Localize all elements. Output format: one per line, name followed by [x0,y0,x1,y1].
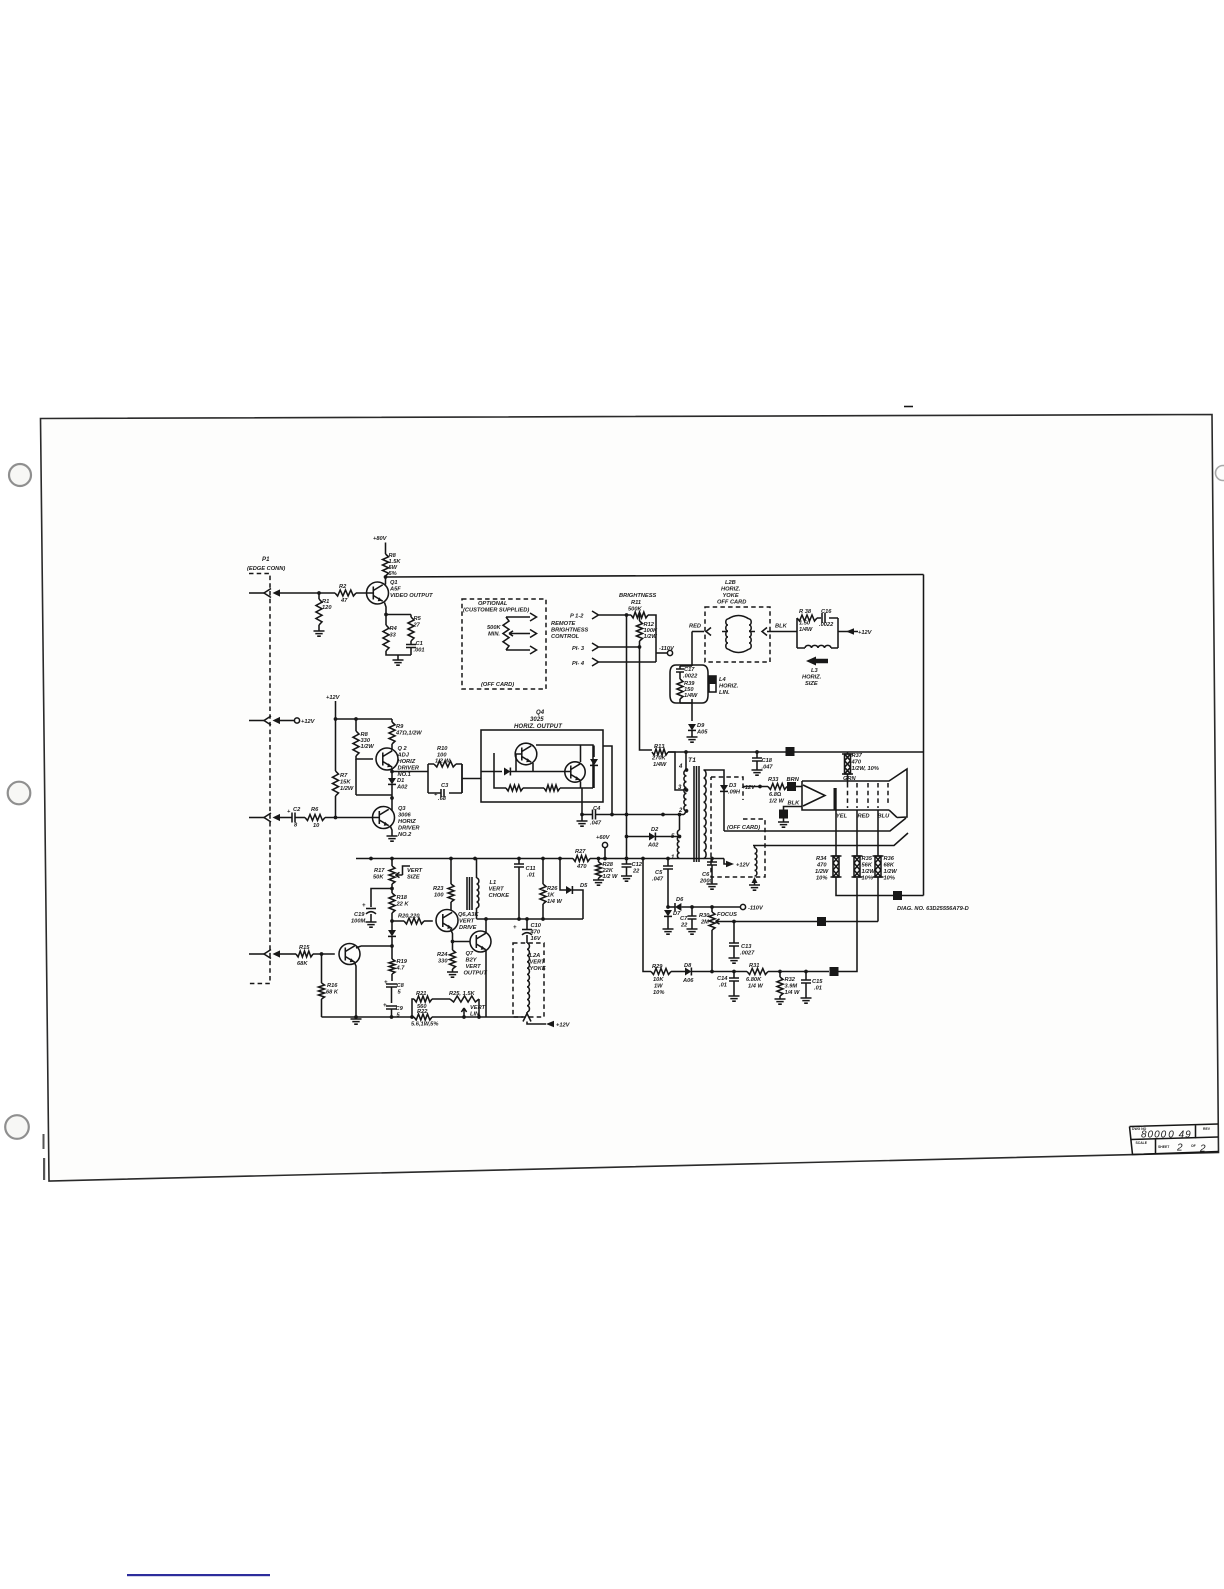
resistor R34 470 1/2W 10% [815,856,842,882]
diode Q4 input [504,768,510,776]
label C16 .0022 [819,609,834,628]
svg-text:4.7: 4.7 [396,966,406,972]
svg-text:BRIGHTNESS: BRIGHTNESS [551,628,588,634]
T1 pin 3 [678,785,688,792]
ground under R28 [593,878,604,885]
resistor R33 6.8 1/2W [768,777,787,805]
svg-text:(CUSTOMER SUPPLIED): (CUSTOMER SUPPLIED) [463,608,529,614]
svg-text:D5: D5 [580,883,588,889]
wire Q7 collector [485,919,487,934]
P1 pin 1 [249,589,280,598]
svg-text:HORIZ: HORIZ [398,759,416,765]
capacitor C13 .0027 [729,922,755,959]
diode D4 [388,921,396,946]
svg-text:1/2 W: 1/2 W [769,799,784,805]
wire top rail to horiz section [386,575,924,578]
transistor Q1 [367,582,389,604]
label YEL [836,814,848,820]
resistor R1 120 [316,593,332,631]
svg-text:R9: R9 [396,724,404,730]
svg-text:YOKE: YOKE [723,593,739,599]
terminal -110V [740,904,764,911]
svg-text:+80V: +80V [373,536,388,542]
svg-text:OF: OF [1191,1144,1196,1148]
transistor Q2 [376,748,398,770]
svg-text:500K: 500K [487,625,501,631]
label BLK at CRT [788,801,801,807]
T1 core [694,766,699,862]
svg-text:2M: 2M [700,920,709,926]
+12V supply label [326,695,341,719]
terminal -110V tap [656,646,675,656]
diode D7 [664,905,681,929]
svg-text:5%: 5% [389,571,397,577]
svg-text:+60V: +60V [596,835,611,841]
svg-text:R13: R13 [654,744,665,750]
capacitor C4 .047 [582,806,602,827]
+80V supply [373,536,388,554]
wire Q7 emitter down [485,950,487,1017]
capacitor C8 5 [384,980,405,1003]
svg-text:ADJ: ADJ [397,753,410,759]
svg-text:C18: C18 [762,758,773,764]
svg-text:.047: .047 [762,765,774,771]
svg-text:L4: L4 [719,677,726,683]
vert size wiper [396,866,423,881]
wire BLU column [877,810,879,856]
diode D1 A02 [388,778,408,791]
label REMOTE BRIGHTNESS CONTROL [551,621,588,640]
wire YEL column [835,810,837,856]
svg-text:1/2 W: 1/2 W [603,874,618,880]
capacitor C14 .01 [717,970,739,996]
ground under C7 [687,929,698,934]
svg-text:C13: C13 [741,944,752,950]
resistor R35 56K 1/2W 10% [852,856,876,882]
svg-text:DIAG. NO. 63D25556A79-D: DIAG. NO. 63D25556A79-D [897,906,969,912]
optional customer supplied dashed box [462,599,546,689]
diode D3 .09H [720,783,741,796]
svg-text:10%: 10% [862,876,873,882]
svg-text:A06: A06 [682,978,694,984]
svg-text:LIN.: LIN. [719,690,730,696]
wire vert rail junctions [369,857,645,861]
svg-text:C5: C5 [655,870,663,876]
wire rail to R29 [643,859,651,972]
svg-text:33: 33 [390,633,397,639]
svg-text:56K: 56K [862,863,873,869]
dashed off card box yoke D3 [711,777,765,877]
resistor R29 10K 1W 10% [651,964,671,996]
svg-text:VERT: VERT [470,1005,486,1011]
wire Q4 internals [511,745,595,788]
box Q4 outer [481,730,603,802]
svg-text:10K: 10K [653,977,664,983]
svg-text:100: 100 [434,893,444,899]
svg-text:R4: R4 [390,626,398,632]
svg-text:RED: RED [689,624,701,630]
wire horiz output rail right [668,751,924,753]
wire bubble internals [680,666,692,721]
resistor R13 270K 1/4W [651,744,668,768]
label GRN [843,774,857,783]
wire R4/C1 bottom to ground [386,651,411,660]
label Q7 B2Y VERT OUTPUT [464,951,488,977]
svg-text:C19: C19 [354,912,365,918]
resistor R5 27 [408,616,422,641]
label BRN [787,777,800,783]
resistor R32 3.9M 1/4W [777,970,800,999]
arrow wiper [516,630,537,638]
svg-text:Q3: Q3 [398,806,406,812]
wire BLU to focus [877,877,879,922]
P1 pin 2 [249,716,280,725]
ground under C19 [366,922,377,927]
resistor Q4 emitter 2 [544,785,560,791]
svg-text:560: 560 [417,1004,427,1010]
svg-text:100M: 100M [351,919,365,925]
label RED [858,814,870,820]
resistor R6 10 [305,807,325,829]
T1 pin 4 [678,764,688,772]
svg-text:D2: D2 [651,827,659,833]
svg-text:10: 10 [313,823,320,829]
resistor R24 330 [437,950,456,972]
svg-text:L1: L1 [490,880,497,886]
coil L2B horiz yoke [722,616,755,653]
sheet 2 of 2 handwritten [1176,1143,1207,1155]
svg-text:3006: 3006 [398,813,411,819]
svg-text:4: 4 [678,764,683,770]
wire Q6 emitter to R24/Q7 [451,929,471,950]
svg-text:R15: R15 [299,945,310,951]
label (OFF CARD) lower [481,682,514,688]
svg-text:47Ω,1/2W: 47Ω,1/2W [395,731,422,737]
diode D9 A05 [688,723,708,737]
svg-text:C14: C14 [717,976,728,982]
CRT neck outline [802,769,907,818]
potentiometer R30 2M FOCUS [699,907,737,930]
wire R12 to R13 vertical [640,647,653,750]
svg-text:C11: C11 [526,866,536,872]
wire R11 right loop [648,615,656,662]
svg-text:1/4 W: 1/4 W [748,984,763,990]
svg-text:.0022: .0022 [683,674,698,680]
T1 lower winding 5-1 [677,813,681,859]
transistor Q4a [515,743,537,765]
wire Q4 output down [580,788,584,816]
ground video stage [393,660,404,665]
wire T1 secondary top to CRT line [704,770,725,831]
svg-text:C17: C17 [684,667,695,673]
wire RED column [856,810,858,856]
svg-text:SHEET: SHEET [1158,1145,1170,1149]
svg-text:C1: C1 [416,641,423,647]
svg-text:HORIZ.: HORIZ. [721,587,741,593]
resistor R7 15K 1/2W [333,719,354,818]
svg-text:FOCUS: FOCUS [717,912,737,918]
transistor Q7 [470,931,491,952]
wire R8 to Q1 collector / node +80V rail [384,575,388,584]
svg-text:R31: R31 [749,963,759,969]
svg-text:1/4W: 1/4W [684,693,698,699]
svg-text:+12V: +12V [301,719,316,725]
svg-text:68K: 68K [297,961,308,967]
resistor R17 50K [373,859,395,885]
svg-text:R17: R17 [374,868,385,874]
svg-text:1/2W: 1/2W [815,869,829,875]
title block frame [1130,1124,1219,1155]
svg-text:47: 47 [340,598,348,604]
svg-text:.01: .01 [814,986,822,992]
svg-text:(OFF CARD): (OFF CARD) [481,682,514,688]
resistor R36 68K 1/2W 10% [873,856,898,882]
svg-text:.01: .01 [527,873,535,879]
svg-text:C6: C6 [702,872,710,878]
label R38 1.50 1/4W [799,609,813,633]
svg-text:R16: R16 [327,983,338,989]
wire +12V rail to R8/R9 [334,717,392,731]
connector BLK [762,624,797,636]
svg-text:15K: 15K [340,780,351,786]
title block label REV [1203,1127,1211,1131]
label Q3 3006 HORIZ DRIVER NO.2 [398,806,420,838]
svg-text:C15: C15 [812,979,823,985]
resistor R28 22K 1/2W [596,857,618,880]
resistor Q4 emitter 1 [506,785,544,791]
ground under Q4 [577,815,588,827]
title block label SHEET [1158,1145,1170,1149]
svg-text:27: 27 [413,623,421,629]
T1 pin 1 [671,855,675,861]
left edge small print marks [43,1134,46,1180]
rail bottom horiz [356,858,724,860]
svg-text:GRN: GRN [843,776,857,782]
junction square BRN [787,782,802,791]
resistor R21 560 [412,991,450,1017]
terminal +12V at pin2 [280,718,316,725]
wire right vertical rail [923,575,925,896]
svg-text:DRIVER: DRIVER [398,766,420,772]
svg-text:OPTIONAL: OPTIONAL [478,601,508,607]
svg-text:C4: C4 [593,806,601,812]
resistor R20 220 [390,913,433,924]
bubble outline C17 R39 [670,665,708,703]
svg-text:NO.2: NO.2 [398,832,412,838]
svg-text:+12V: +12V [736,863,751,869]
svg-text:D8: D8 [684,963,692,969]
svg-text:C16: C16 [821,609,832,615]
svg-text:.001: .001 [414,648,425,654]
svg-text:R25, 1.5K: R25, 1.5K [449,991,476,997]
resistor R8 330 1/2W [353,731,374,756]
L3 horiz size arrow [806,657,828,666]
R10 100 1/2W with C3 box [428,761,462,797]
resistor R23 100 [433,859,454,911]
capacitor C19 100M [351,889,392,925]
svg-text:5.6,1W,5%: 5.6,1W,5% [411,1022,438,1028]
svg-text:LIN.: LIN. [470,1012,481,1018]
svg-text:VIDEO OUTPUT: VIDEO OUTPUT [390,593,433,599]
svg-text:470: 470 [851,760,862,766]
wire R8 to Q2 base [356,756,373,759]
svg-text:HORIZ.: HORIZ. [719,684,739,690]
svg-text:VERT: VERT [407,868,423,874]
svg-text:1/4 W: 1/4 W [785,990,800,996]
box Q4 inner [494,745,593,788]
label (OFF CARD) yoke [727,825,760,831]
potentiometer R25 1.5K [449,991,479,1017]
svg-text:D9: D9 [697,723,705,729]
label L3 HORIZ SIZE [802,668,822,687]
svg-text:R6: R6 [311,807,319,813]
svg-text:Q7: Q7 [466,951,474,957]
wire long vertical brightness to C4 line [625,613,629,864]
punch hole left bottom [5,1115,29,1139]
registration tick top border [904,406,913,408]
ground under R32 [775,999,786,1004]
svg-text:R 38: R 38 [799,609,812,615]
svg-text:50K: 50K [373,875,384,881]
svg-text:DRIVER: DRIVER [398,826,420,832]
svg-text:A5F: A5F [389,587,401,593]
ground under C18 [752,770,763,775]
focus wiper wire [716,919,818,924]
ground under D9 [687,737,698,742]
svg-text:R7: R7 [340,773,348,779]
P1 pin 3 [249,813,280,822]
ground under Q3 [387,836,398,841]
R25 wiper vert lin [461,1005,485,1018]
terminal +60V [596,835,611,860]
ground under R1 [314,631,325,636]
svg-text:HORIZ.: HORIZ. [802,675,822,681]
svg-text:R18: R18 [397,895,408,901]
node PI-3 [572,643,640,652]
BLK return wire [784,807,803,811]
capacitor C2 8 [280,807,305,829]
wire YEL to bottom bus [836,877,924,896]
label Q2 ADJ HORIZ DRIVER NO.1 [397,746,420,778]
ground under D7 [663,929,674,934]
CRT grid dashed electrodes [848,783,889,808]
wire Q3 emitter to ground [390,826,392,837]
svg-text:C8: C8 [397,983,405,989]
svg-text:VERT: VERT [466,964,482,970]
wire Q4 box bypass right [603,746,614,816]
svg-text:+12V: +12V [326,695,341,701]
wire pin1 to R2 [280,591,335,595]
svg-text:A02: A02 [396,785,408,791]
svg-text:1.50: 1.50 [799,621,811,627]
svg-text:.0022: .0022 [819,622,834,628]
capacitor C17 .0022 [676,666,698,680]
svg-text:OUTPUT: OUTPUT [464,971,488,977]
label L1 VERT CHOKE [489,880,510,899]
wire Q1 emitter [384,603,411,626]
svg-text:BLK: BLK [788,801,801,807]
resistor R39 150 1/4W [677,679,698,699]
svg-text:C9: C9 [396,1006,404,1012]
svg-text:C10: C10 [531,923,542,929]
svg-text:470: 470 [816,863,827,869]
svg-text:.68: .68 [438,796,447,802]
svg-text:270K: 270K [651,756,666,762]
diode Q4 damper [590,759,598,788]
diode D6 [668,897,740,911]
svg-text:1K: 1K [547,893,555,899]
label R10 100 1/2W [435,746,450,765]
ground under C12 [621,876,632,881]
CRT envelope line lower [753,833,908,846]
title block label DWG NO [1132,1127,1147,1131]
T1 secondary winding [704,770,707,859]
svg-text:3025: 3025 [530,717,544,723]
inductor L1 vert choke [467,859,479,919]
wire Q5 emitter [355,963,357,1018]
capacitor C15 .01 [801,970,823,998]
title block label SCALE [1136,1141,1148,1145]
label OPTIONAL (CUSTOMER SUPPLIED) [463,601,529,614]
resistor R18 22K [389,884,409,913]
svg-text:-110V: -110V [748,906,764,912]
coil L2A vert yoke [527,943,529,1012]
wire R10 box to Q4 [462,764,481,793]
svg-text:R34: R34 [816,856,827,862]
resistor R31 6.80K 1/4W [746,963,829,990]
label DIAG NO [897,906,969,912]
svg-text:VERT: VERT [530,960,546,966]
junction square R31 line [830,967,839,976]
svg-text:BLU: BLU [878,814,891,820]
svg-text:Q4: Q4 [536,710,545,716]
transistor Q5 [339,944,360,965]
label BLU [878,814,891,820]
T1 primary winding 4-2 [684,770,687,811]
svg-text:PI- 4: PI- 4 [572,661,585,667]
svg-text:R36: R36 [884,856,895,862]
+12V return arrow [527,1021,571,1029]
svg-text:MIN.: MIN. [488,632,500,638]
potentiometer 500K MIN [487,617,516,650]
svg-text:16V: 16V [531,936,542,942]
junction square output bus [893,891,902,900]
connector RED [689,624,711,636]
dashed box L2B [705,607,770,662]
svg-text:120: 120 [322,605,332,611]
svg-text:D3: D3 [729,783,737,789]
resistor R22 5.6 1W 5% [411,1009,438,1028]
capacitor C5 .047 [652,857,673,907]
svg-text:.047: .047 [590,821,602,827]
svg-text:22: 22 [632,869,640,875]
wire R6 to Q3 base [325,816,379,820]
svg-text:DRIVE: DRIVE [459,925,477,931]
svg-text:2: 2 [1176,1143,1184,1154]
svg-text:1W: 1W [654,984,663,990]
CRT cathode bar [834,788,837,810]
label L2A VERT YOKE [530,953,546,972]
capacitor C1 .001 [406,641,425,655]
resistor R19 4.7 [389,946,408,981]
punch hole left middle [8,782,31,805]
svg-text:PI- 3: PI- 3 [572,646,585,652]
svg-text:CONTROL: CONTROL [551,634,580,640]
drawing number 8000049 handwritten [1141,1130,1192,1141]
resistor R2 47 [335,584,356,604]
CRT envelope line upper [724,818,906,831]
svg-text:1/4W: 1/4W [653,762,667,768]
